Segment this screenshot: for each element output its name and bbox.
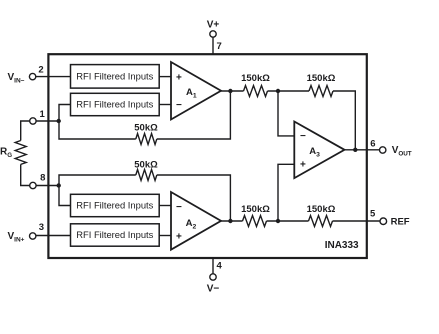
resistor RG (external gain resistor) <box>15 121 30 186</box>
wire node E to node F <box>267 220 309 222</box>
wire pin 2 to RFI filter 1 <box>36 76 71 78</box>
value label 150k R3 <box>241 204 270 215</box>
svg-text:2: 2 <box>38 65 43 76</box>
svg-text:5: 5 <box>370 209 376 220</box>
svg-text:+: + <box>300 160 306 171</box>
value label 150k R4 <box>307 204 336 215</box>
wire pin 8 to node B <box>36 185 59 187</box>
svg-text:VIN+: VIN+ <box>8 231 25 244</box>
resistor 150k R3 (bottom left) <box>243 216 267 227</box>
net label VOUT <box>392 145 412 158</box>
svg-text:VIN−: VIN− <box>8 72 25 85</box>
pin 6 terminal circle <box>380 147 386 153</box>
svg-text:−: − <box>300 131 306 142</box>
net label REF <box>391 216 410 227</box>
wire pin 7 stub <box>212 37 214 55</box>
node D junction (top middle) <box>276 89 280 93</box>
pin 7 terminal circle <box>210 31 216 37</box>
svg-text:50kΩ: 50kΩ <box>134 123 158 134</box>
pin number 2 <box>38 65 43 76</box>
value label RG <box>0 146 12 159</box>
svg-text:−: − <box>176 202 182 213</box>
svg-text:1: 1 <box>40 109 46 120</box>
svg-text:150kΩ: 150kΩ <box>241 73 270 84</box>
resistor 50k R6 (A2 feedback) <box>136 170 157 181</box>
node F junction (bottom middle) <box>276 219 280 223</box>
wire A1 feedback through 50k (node C down, left to node A) <box>59 91 230 139</box>
resistor 50k R5 (A1 feedback) <box>136 134 157 145</box>
wire node C to node D <box>268 90 310 92</box>
svg-text:7: 7 <box>217 41 222 52</box>
pin number 5 <box>370 209 376 220</box>
RFI filter block 2 (to A1 -) <box>71 93 160 115</box>
net label VIN- <box>8 72 25 85</box>
svg-text:RFI Filtered Inputs: RFI Filtered Inputs <box>76 229 153 240</box>
wire A3 output to pin 6 <box>345 149 380 151</box>
pin 8 terminal circle <box>30 182 36 188</box>
pin number 1 <box>40 109 46 120</box>
svg-text:RFI Filtered Inputs: RFI Filtered Inputs <box>76 71 153 82</box>
pin 2 terminal circle <box>29 73 35 79</box>
value label 50k R6 <box>134 159 158 170</box>
net label VIN+ <box>8 231 25 244</box>
pin number 4 <box>217 261 223 272</box>
op-amp A3 <box>294 122 344 179</box>
wire A1 output to node C <box>221 90 244 92</box>
resistor 150k R4 (bottom right) <box>309 216 333 227</box>
svg-text:+: + <box>176 73 182 84</box>
pin 3 terminal circle <box>30 233 36 239</box>
wire node F to A3 + input <box>278 164 294 221</box>
wire pin 4 stub <box>212 257 214 274</box>
pin 1 terminal circle <box>30 118 36 124</box>
wire A2 output to node E <box>221 220 243 222</box>
value label 150k R2 <box>307 73 336 84</box>
wire R4 to pin 5 <box>333 220 381 222</box>
net label V- <box>207 284 220 295</box>
wire node A up to RFI filter 2 input <box>59 105 71 122</box>
svg-text:V+: V+ <box>207 19 220 30</box>
device outline box (INA333 body) <box>48 54 366 258</box>
svg-text:V−: V− <box>207 284 220 295</box>
wire RFI filter 2 to A1 - input <box>159 104 171 106</box>
svg-text:+: + <box>176 231 182 242</box>
svg-text:8: 8 <box>40 173 45 184</box>
part name INA333 <box>325 240 359 251</box>
svg-text:−: − <box>176 100 182 111</box>
wire RFI filter 4 to A2 + input <box>159 235 171 237</box>
value label 150k R1 <box>241 73 270 84</box>
wire node D to A3 - input <box>278 91 294 136</box>
pin 5 terminal circle <box>380 218 387 225</box>
node G junction (A3 output / feedback) <box>353 148 357 152</box>
pin number 3 <box>39 222 44 233</box>
op-amp A2 <box>171 192 221 250</box>
svg-text:50kΩ: 50kΩ <box>134 159 158 170</box>
RFI filter block 3 (to A2 -) <box>71 194 160 216</box>
svg-text:VOUT: VOUT <box>392 145 412 158</box>
svg-text:3: 3 <box>39 222 44 233</box>
resistor 150k R1 (top left) <box>244 86 268 97</box>
wire A2 feedback through 50k (node E up, left to node B) <box>59 175 230 221</box>
node E junction (A2 output) <box>228 219 232 223</box>
svg-text:4: 4 <box>217 261 223 272</box>
op-amp A1 <box>171 62 221 120</box>
wire RFI filter 1 to A1 + input <box>159 76 171 78</box>
net label V+ <box>207 19 220 30</box>
wire R2 to A3 output node <box>333 91 355 150</box>
svg-text:INA333: INA333 <box>325 240 359 251</box>
wire RFI filter 3 to A2 - input <box>159 205 171 207</box>
svg-text:150kΩ: 150kΩ <box>241 204 270 215</box>
pin 4 terminal circle <box>210 274 216 280</box>
resistor 150k R2 (top right) <box>309 86 333 97</box>
wire pin 3 to RFI filter 4 <box>36 235 71 237</box>
RFI filter block 4 (to A2 +) <box>71 224 160 246</box>
RFI filter block 1 (to A1 +) <box>71 65 160 89</box>
wire pin 1 to node A <box>36 120 59 122</box>
node B junction (pin 8) <box>57 183 61 187</box>
svg-text:6: 6 <box>370 138 375 149</box>
svg-text:RFI Filtered Inputs: RFI Filtered Inputs <box>76 99 153 110</box>
node A junction (pin 1) <box>57 119 61 123</box>
svg-text:150kΩ: 150kΩ <box>307 204 336 215</box>
svg-text:RG: RG <box>0 146 12 159</box>
wire node B down to RFI filter 3 input <box>59 186 71 206</box>
svg-text:RFI Filtered Inputs: RFI Filtered Inputs <box>76 200 153 211</box>
pin number 7 <box>217 41 222 52</box>
node C junction (A1 output) <box>228 89 232 93</box>
svg-text:REF: REF <box>391 216 410 227</box>
pin number 6 <box>370 138 375 149</box>
value label 50k R5 <box>134 123 158 134</box>
svg-text:150kΩ: 150kΩ <box>307 73 336 84</box>
pin number 8 <box>40 173 45 184</box>
